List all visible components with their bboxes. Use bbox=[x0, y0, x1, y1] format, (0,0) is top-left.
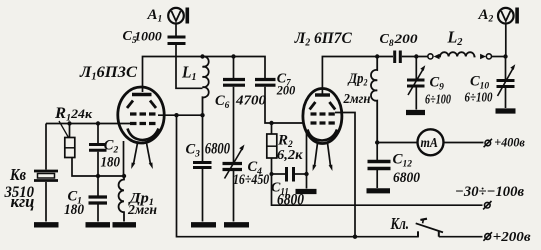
tube U2 control grid dashes bbox=[311, 121, 335, 124]
wire anode bus tube1 bbox=[143, 57, 266, 93]
svg-text:2мгн: 2мгн bbox=[127, 203, 157, 218]
tube U1 heater arrows bbox=[134, 143, 138, 164]
tube U1 beam plates bbox=[127, 101, 156, 109]
svg-text:6÷100: 6÷100 bbox=[465, 90, 493, 105]
tube U2 envelope bbox=[303, 89, 342, 144]
svg-text:6800: 6800 bbox=[393, 170, 420, 186]
node Dr1 top bbox=[122, 174, 126, 178]
antenna A1 bbox=[168, 8, 189, 24]
choke Dr1 bbox=[119, 176, 124, 222]
wire cathode tube1 down bbox=[123, 141, 125, 176]
node L1 top bbox=[200, 54, 204, 58]
antenna A2 bbox=[498, 8, 519, 24]
ground Kv bbox=[34, 222, 59, 227]
terminal -30 -100V bbox=[483, 201, 491, 209]
svg-text:1000: 1000 bbox=[134, 29, 162, 43]
terminal +400V bbox=[484, 139, 492, 147]
svg-text:mA: mA bbox=[421, 136, 439, 151]
wire grid line tube1 bbox=[46, 123, 130, 125]
tube U1 cathode bbox=[128, 129, 159, 141]
node antenna A2 bbox=[503, 54, 507, 58]
wire to meter bbox=[377, 142, 417, 144]
ground Dr1 bbox=[113, 222, 137, 227]
key Kl bbox=[416, 219, 483, 237]
wire meter to +400 terminal bbox=[444, 142, 484, 144]
capacitor C7 bbox=[255, 80, 303, 124]
svg-text:200: 200 bbox=[276, 82, 296, 97]
svg-text:Л16П3С: Л16П3С bbox=[79, 64, 137, 83]
tube U1 anode bbox=[132, 93, 152, 96]
resistor R2 bbox=[267, 123, 277, 174]
svg-text:180: 180 bbox=[101, 155, 121, 171]
ground C12 bbox=[367, 188, 391, 193]
wire C5 to L1 tap (crosses anode bus without junction) bbox=[176, 45, 203, 88]
tube U2 anode bbox=[315, 93, 330, 96]
capacitor C5 bbox=[168, 37, 186, 44]
capacitor C12 bbox=[368, 143, 391, 189]
wire antenna A1 to C5 bbox=[175, 24, 177, 36]
svg-text:16÷450: 16÷450 bbox=[233, 172, 269, 188]
tube U1 envelope bbox=[118, 87, 164, 143]
tube U1 control grid dashes bbox=[130, 122, 156, 125]
capacitor C2 bbox=[89, 124, 107, 177]
wire cathode tube2 down to ground bbox=[306, 174, 308, 189]
variable capacitor C4 bbox=[223, 145, 245, 222]
tube U1 screen grid dashes bbox=[130, 112, 156, 115]
svg-text:2мгн: 2мгн bbox=[343, 91, 371, 106]
quartz crystal Kv bbox=[34, 124, 58, 222]
svg-text:200: 200 bbox=[393, 31, 418, 46]
capacitor C3 bbox=[193, 115, 212, 221]
node R2/C11/bias bbox=[270, 172, 274, 176]
inductor L1 bbox=[203, 56, 209, 115]
terminal +200V bbox=[483, 232, 492, 241]
node R2 top bbox=[269, 121, 273, 125]
variable capacitor C10 bbox=[497, 57, 516, 109]
svg-text:Кв: Кв bbox=[9, 165, 26, 184]
node Dr2 / C12 / +400 line bbox=[375, 140, 379, 144]
svg-text:R124к: R124к bbox=[54, 105, 93, 124]
svg-text:+400в: +400в bbox=[494, 134, 525, 149]
svg-text:6,2к: 6,2к bbox=[277, 148, 303, 163]
ground C4 bbox=[224, 222, 249, 227]
svg-text:6÷100: 6÷100 bbox=[425, 93, 451, 108]
node C1 top bbox=[96, 174, 100, 178]
node L1 bottom / C3 bbox=[200, 113, 204, 117]
inductor L2 with plug connections bbox=[428, 52, 506, 59]
svg-text:6800: 6800 bbox=[205, 141, 230, 158]
svg-text:кгц: кгц bbox=[11, 192, 35, 211]
svg-text:−30÷−100в: −30÷−100в bbox=[455, 184, 524, 200]
resistor R1 bbox=[65, 124, 98, 177]
wire screen grid tube1 to right bbox=[158, 114, 203, 116]
wire screen line down to key bus bbox=[177, 115, 419, 237]
svg-text:Л2 6П7С: Л2 6П7С bbox=[294, 30, 352, 49]
node R1 top bbox=[67, 121, 71, 125]
capacitor C11 bbox=[272, 167, 307, 182]
meter mA bbox=[418, 129, 444, 155]
node C2 top bbox=[96, 121, 100, 125]
wire bias: R2 to -30V line bbox=[272, 174, 483, 205]
ground C9 bbox=[406, 110, 425, 115]
ground cathode tube2 bbox=[296, 189, 317, 194]
tube U2 cathode bbox=[308, 130, 338, 141]
svg-text:180: 180 bbox=[64, 202, 84, 218]
label leader line R1 bbox=[59, 121, 69, 138]
capacitor C6 bbox=[223, 57, 245, 163]
tube U2 beam plates bbox=[310, 102, 336, 110]
node C6 top bbox=[231, 54, 235, 58]
wire anode tube2 to bus bbox=[322, 57, 393, 94]
svg-text:+200в: +200в bbox=[493, 229, 531, 244]
capacitor C1 bbox=[89, 176, 108, 222]
node screen2/key bus bbox=[353, 235, 357, 239]
node screen line / key line bbox=[174, 113, 178, 117]
wire node to Dr1 bbox=[98, 175, 124, 177]
ground C3 bbox=[191, 222, 216, 227]
tube U2 heater arrows bbox=[315, 143, 318, 166]
tube U2 screen grid dashes bbox=[311, 112, 335, 115]
wire cathode tube2 lead bbox=[306, 133, 308, 174]
ground C10 bbox=[496, 108, 516, 113]
wire screen tube2 to key bus bbox=[335, 113, 355, 237]
wire antenna A2 down bbox=[505, 24, 507, 57]
svg-text:Кл.: Кл. bbox=[390, 214, 409, 233]
ground C1 bbox=[86, 222, 111, 227]
node C9 top bbox=[414, 54, 418, 58]
variable capacitor C9 bbox=[407, 57, 425, 110]
choke Dr2 bbox=[371, 54, 379, 142]
capacitor C8 bbox=[395, 51, 428, 64]
svg-text:4700: 4700 bbox=[235, 93, 266, 108]
node cathode tube2 bbox=[304, 172, 308, 176]
